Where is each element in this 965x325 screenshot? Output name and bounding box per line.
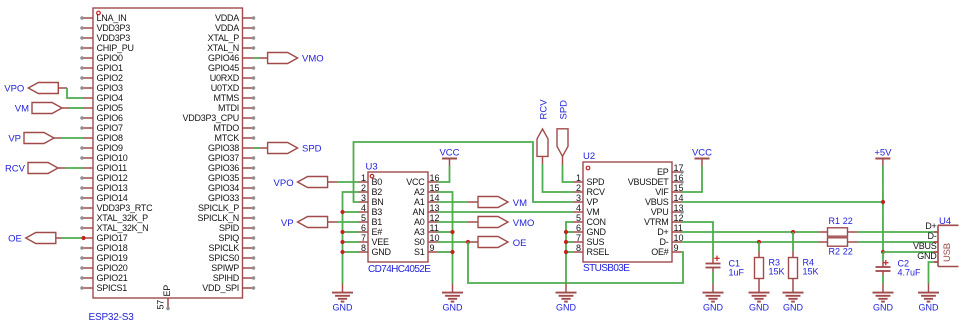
- svg-text:VDD_SPI: VDD_SPI: [202, 283, 239, 293]
- svg-text:1: 1: [361, 173, 366, 183]
- svg-text:15K: 15K: [803, 267, 819, 277]
- svg-text:GPIO9: GPIO9: [97, 143, 124, 153]
- svg-text:GND: GND: [587, 227, 607, 237]
- svg-text:VBUSDET: VBUSDET: [628, 177, 670, 187]
- svg-text:VM: VM: [513, 198, 527, 209]
- svg-text:GPIO34: GPIO34: [208, 183, 239, 193]
- svg-text:VDD3P3_RTC: VDD3P3_RTC: [97, 203, 154, 213]
- svg-text:22: 22: [843, 216, 853, 226]
- svg-text:GND: GND: [919, 303, 940, 313]
- svg-text:GPIO45: GPIO45: [208, 63, 239, 73]
- svg-text:D-: D-: [660, 237, 669, 247]
- svg-text:U3: U3: [366, 162, 378, 173]
- svg-text:2: 2: [576, 183, 581, 193]
- svg-text:RSEL: RSEL: [587, 247, 610, 257]
- svg-text:A3: A3: [414, 227, 425, 237]
- svg-text:SPIQ: SPIQ: [218, 233, 239, 243]
- svg-text:B1: B1: [372, 217, 383, 227]
- svg-text:GND: GND: [783, 303, 804, 313]
- svg-text:U2: U2: [583, 151, 595, 162]
- svg-text:4: 4: [361, 203, 366, 213]
- svg-text:CHIP_PU: CHIP_PU: [97, 43, 134, 53]
- svg-text:D-: D-: [928, 231, 937, 241]
- svg-text:3: 3: [576, 193, 581, 203]
- svg-text:VM: VM: [15, 104, 29, 115]
- svg-text:D+: D+: [657, 227, 668, 237]
- svg-text:VEE: VEE: [372, 237, 390, 247]
- svg-text:GND: GND: [703, 303, 724, 313]
- svg-text:VIF: VIF: [655, 187, 669, 197]
- svg-text:MTCK: MTCK: [215, 133, 240, 143]
- svg-text:S0: S0: [414, 237, 425, 247]
- svg-text:VDDA: VDDA: [215, 23, 239, 33]
- svg-text:SPD: SPD: [559, 100, 570, 120]
- svg-text:6: 6: [576, 223, 581, 233]
- svg-text:GPIO13: GPIO13: [97, 183, 128, 193]
- svg-text:4.7uF: 4.7uF: [898, 268, 922, 278]
- svg-text:VDD3P3_CPU: VDD3P3_CPU: [182, 113, 239, 123]
- svg-text:1uF: 1uF: [729, 268, 745, 278]
- svg-text:VDD3P3: VDD3P3: [97, 23, 131, 33]
- svg-text:U0TXD: U0TXD: [211, 83, 240, 93]
- svg-text:+5V: +5V: [874, 148, 892, 159]
- svg-text:VDDA: VDDA: [215, 13, 239, 23]
- svg-text:E#: E#: [372, 227, 383, 237]
- svg-text:USB: USB: [942, 243, 953, 262]
- svg-text:GPIO6: GPIO6: [97, 113, 124, 123]
- svg-text:VBUS: VBUS: [913, 241, 937, 251]
- svg-text:6: 6: [361, 223, 366, 233]
- svg-text:GND: GND: [372, 247, 392, 257]
- svg-text:EP: EP: [657, 167, 669, 177]
- svg-text:8: 8: [361, 243, 366, 253]
- svg-text:ESP32-S3: ESP32-S3: [89, 312, 135, 323]
- svg-text:XTAL_32K_P: XTAL_32K_P: [97, 213, 149, 223]
- svg-text:VPU: VPU: [651, 207, 669, 217]
- svg-text:GND: GND: [917, 251, 937, 261]
- svg-text:GPIO20: GPIO20: [97, 263, 128, 273]
- svg-text:VCC: VCC: [406, 177, 425, 187]
- svg-text:VBUS: VBUS: [645, 197, 669, 207]
- svg-text:OE: OE: [513, 238, 527, 249]
- svg-text:SPD: SPD: [587, 177, 606, 187]
- svg-text:GPIO37: GPIO37: [208, 153, 239, 163]
- svg-text:GPIO8: GPIO8: [97, 133, 124, 143]
- svg-text:A1: A1: [414, 197, 425, 207]
- svg-text:5: 5: [361, 213, 366, 223]
- svg-text:B2: B2: [372, 187, 383, 197]
- svg-text:B0: B0: [372, 177, 383, 187]
- svg-text:GPIO33: GPIO33: [208, 193, 239, 203]
- svg-text:57: 57: [156, 300, 166, 310]
- svg-text:GPIO18: GPIO18: [97, 243, 128, 253]
- svg-text:RCV: RCV: [5, 164, 26, 175]
- svg-text:S1: S1: [414, 247, 425, 257]
- svg-text:GPIO1: GPIO1: [97, 63, 124, 73]
- svg-text:GPIO38: GPIO38: [208, 143, 239, 153]
- svg-text:RCV: RCV: [539, 99, 550, 120]
- svg-text:SPIWP: SPIWP: [211, 263, 239, 273]
- svg-text:SPICLK_N: SPICLK_N: [197, 213, 239, 223]
- svg-text:STUSB03E: STUSB03E: [583, 263, 630, 274]
- svg-text:B3: B3: [372, 207, 383, 217]
- svg-text:CON: CON: [587, 217, 606, 227]
- svg-text:D+: D+: [925, 221, 936, 231]
- svg-text:GPIO10: GPIO10: [97, 153, 128, 163]
- svg-text:SPICS0: SPICS0: [208, 253, 239, 263]
- svg-text:MTMS: MTMS: [214, 93, 240, 103]
- svg-text:4: 4: [576, 203, 581, 213]
- svg-text:OE#: OE#: [651, 247, 669, 257]
- svg-text:A0: A0: [414, 217, 425, 227]
- svg-text:GND: GND: [556, 303, 577, 313]
- svg-text:SPIHD: SPIHD: [213, 273, 240, 283]
- svg-text:SPID: SPID: [219, 223, 240, 233]
- svg-text:AN: AN: [412, 207, 424, 217]
- svg-text:GPIO14: GPIO14: [97, 193, 128, 203]
- svg-text:GPIO21: GPIO21: [97, 273, 128, 283]
- svg-text:XTAL_P: XTAL_P: [208, 33, 240, 43]
- svg-text:VTRM: VTRM: [644, 217, 669, 227]
- svg-text:2: 2: [361, 183, 366, 193]
- svg-text:GPIO19: GPIO19: [97, 253, 128, 263]
- svg-text:SUS: SUS: [587, 237, 605, 247]
- svg-text:GPIO11: GPIO11: [97, 163, 128, 173]
- svg-text:GPIO3: GPIO3: [97, 83, 124, 93]
- svg-text:BN: BN: [372, 197, 384, 207]
- svg-text:9: 9: [430, 243, 435, 253]
- svg-text:GND: GND: [443, 303, 464, 313]
- svg-text:VMO: VMO: [513, 218, 535, 229]
- svg-text:22: 22: [843, 247, 853, 257]
- svg-text:GPIO4: GPIO4: [97, 93, 124, 103]
- svg-text:GPIO35: GPIO35: [208, 173, 239, 183]
- svg-text:GND: GND: [333, 303, 354, 313]
- svg-text:8: 8: [576, 243, 581, 253]
- svg-text:VP: VP: [8, 134, 21, 145]
- svg-text:A2: A2: [414, 187, 425, 197]
- svg-text:CD74HC4052E: CD74HC4052E: [368, 264, 431, 275]
- svg-text:U0RXD: U0RXD: [210, 73, 240, 83]
- svg-text:SPICLK_P: SPICLK_P: [198, 203, 239, 213]
- svg-text:GPIO46: GPIO46: [208, 53, 239, 63]
- svg-text:VDD3P3: VDD3P3: [97, 33, 131, 43]
- svg-text:GPIO2: GPIO2: [97, 73, 124, 83]
- svg-text:EP: EP: [162, 285, 172, 297]
- svg-text:RCV: RCV: [587, 187, 605, 197]
- svg-text:SPICS1: SPICS1: [97, 283, 128, 293]
- svg-text:9: 9: [674, 243, 679, 253]
- svg-text:VM: VM: [587, 207, 600, 217]
- svg-text:11: 11: [674, 223, 683, 233]
- svg-text:MTDI: MTDI: [218, 103, 239, 113]
- svg-text:7: 7: [361, 233, 366, 243]
- svg-text:GPIO17: GPIO17: [97, 233, 128, 243]
- svg-text:VP: VP: [587, 197, 599, 207]
- svg-text:OE: OE: [8, 234, 22, 245]
- svg-text:VCC: VCC: [692, 148, 712, 159]
- svg-text:7: 7: [576, 233, 581, 243]
- svg-text:XTAL_N: XTAL_N: [207, 43, 239, 53]
- svg-text:GND: GND: [873, 303, 894, 313]
- svg-text:VPO: VPO: [4, 84, 24, 95]
- svg-text:GPIO12: GPIO12: [97, 173, 128, 183]
- svg-text:MTDO: MTDO: [214, 123, 240, 133]
- svg-text:GPIO5: GPIO5: [97, 103, 124, 113]
- svg-text:15K: 15K: [769, 267, 785, 277]
- svg-text:VMO: VMO: [302, 54, 324, 65]
- svg-text:VPO: VPO: [274, 178, 294, 189]
- svg-text:XTAL_32K_N: XTAL_32K_N: [97, 223, 149, 233]
- svg-text:LNA_IN: LNA_IN: [97, 13, 127, 23]
- svg-text:1: 1: [576, 173, 581, 183]
- svg-text:GPIO36: GPIO36: [208, 163, 239, 173]
- svg-text:GND: GND: [749, 303, 770, 313]
- svg-text:GPIO0: GPIO0: [97, 53, 124, 63]
- svg-text:R1: R1: [829, 216, 841, 226]
- svg-text:SPD: SPD: [302, 144, 322, 155]
- svg-text:SPICLK: SPICLK: [208, 243, 239, 253]
- svg-text:VCC: VCC: [439, 148, 459, 159]
- svg-text:5: 5: [576, 213, 581, 223]
- svg-text:R2: R2: [829, 247, 841, 257]
- svg-text:VP: VP: [281, 218, 294, 229]
- svg-text:GPIO7: GPIO7: [97, 123, 124, 133]
- svg-text:3: 3: [361, 193, 366, 203]
- svg-text:11: 11: [430, 223, 439, 233]
